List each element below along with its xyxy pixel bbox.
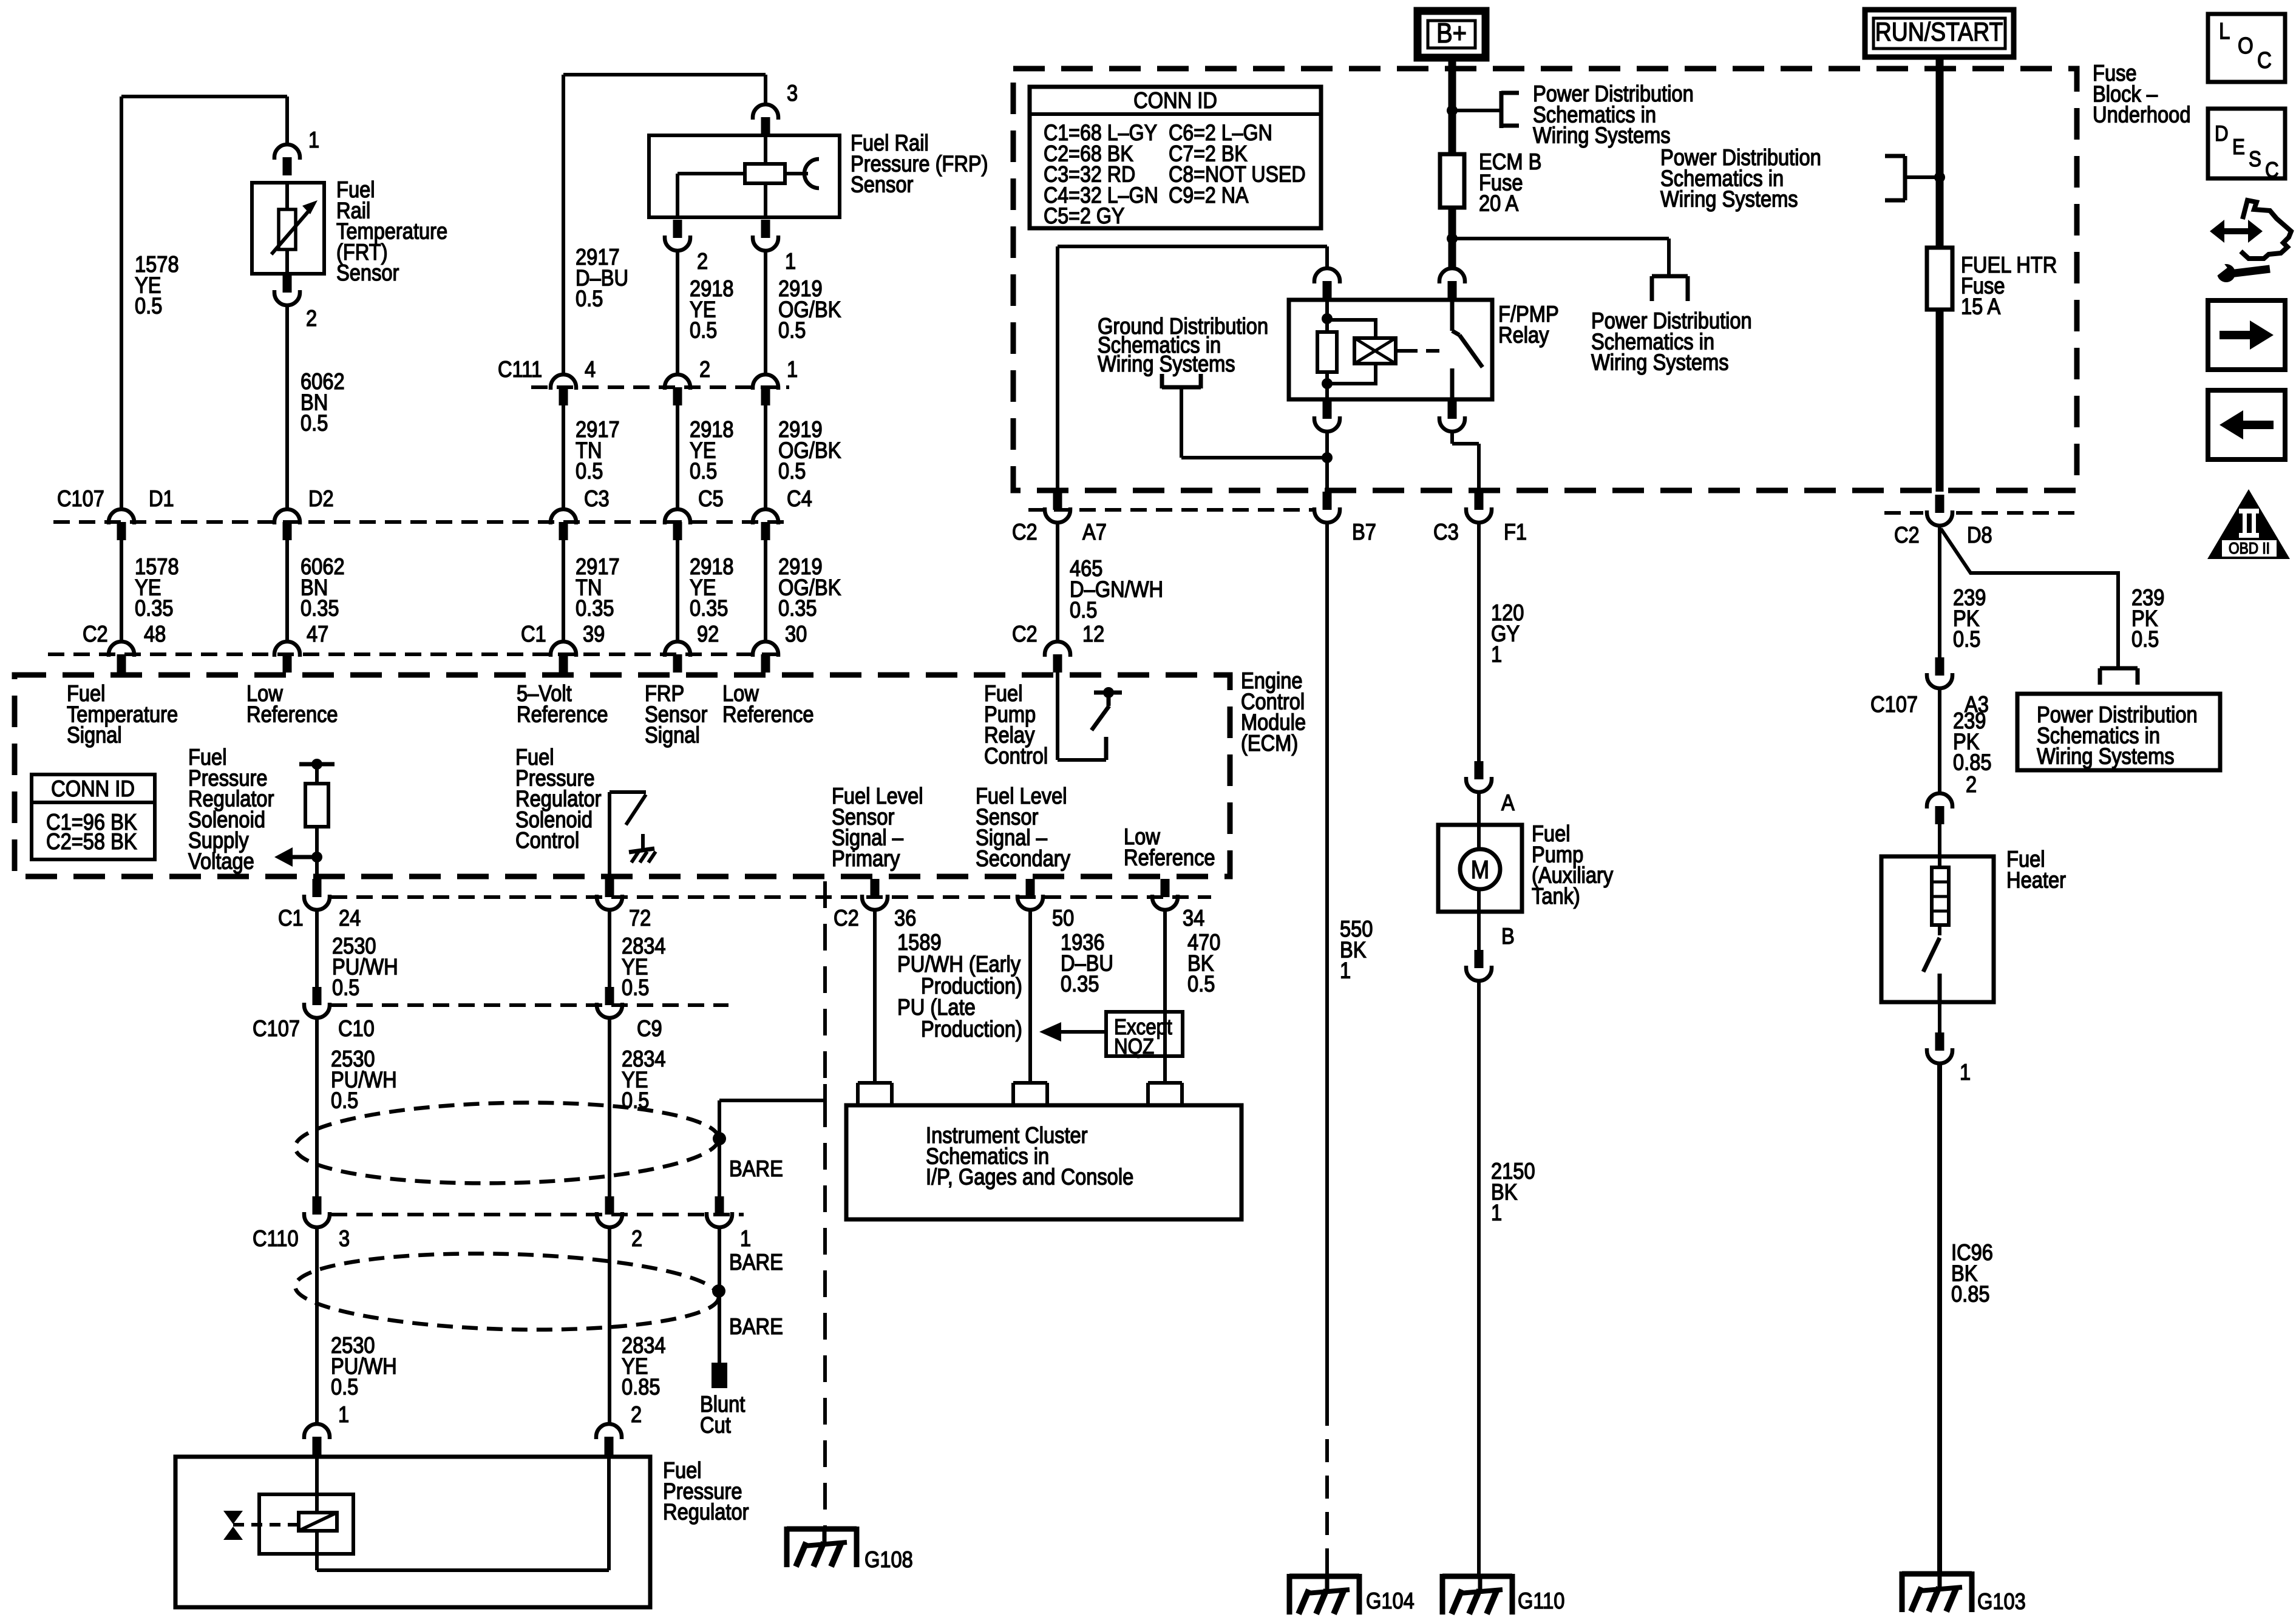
svg-text:Wiring Systems: Wiring Systems bbox=[1533, 123, 1671, 148]
svg-text:2: 2 bbox=[1966, 771, 1977, 797]
svg-text:D: D bbox=[2215, 121, 2229, 146]
svg-text:0.35: 0.35 bbox=[1061, 971, 1099, 997]
svg-text:50: 50 bbox=[1052, 905, 1074, 930]
svg-text:Tank): Tank) bbox=[1532, 883, 1580, 909]
svg-text:C1: C1 bbox=[521, 621, 546, 646]
svg-text:1: 1 bbox=[785, 248, 796, 274]
svg-text:48: 48 bbox=[144, 621, 166, 646]
svg-text:O: O bbox=[2238, 33, 2254, 59]
svg-text:0.35: 0.35 bbox=[135, 595, 174, 621]
svg-text:C107: C107 bbox=[253, 1015, 300, 1041]
svg-text:B: B bbox=[1501, 923, 1515, 949]
svg-text:2: 2 bbox=[697, 248, 708, 274]
svg-text:24: 24 bbox=[339, 905, 361, 930]
svg-text:C10: C10 bbox=[338, 1015, 375, 1041]
svg-text:0.5: 0.5 bbox=[331, 1088, 358, 1113]
svg-text:Reference: Reference bbox=[722, 701, 814, 727]
svg-text:0.5: 0.5 bbox=[576, 286, 603, 311]
svg-text:0.5: 0.5 bbox=[1953, 626, 1980, 652]
svg-text:Regulator: Regulator bbox=[663, 1499, 749, 1525]
svg-text:C: C bbox=[2265, 157, 2279, 182]
svg-text:3: 3 bbox=[339, 1225, 350, 1251]
svg-text:C1: C1 bbox=[278, 905, 304, 930]
svg-text:2: 2 bbox=[631, 1225, 642, 1251]
svg-text:0.5: 0.5 bbox=[778, 317, 806, 343]
svg-text:Voltage: Voltage bbox=[188, 849, 254, 874]
svg-text:B7: B7 bbox=[1352, 519, 1376, 544]
svg-text:Cut: Cut bbox=[700, 1412, 731, 1437]
svg-text:30: 30 bbox=[785, 621, 807, 646]
svg-text:C3: C3 bbox=[1433, 519, 1459, 544]
svg-text:0.5: 0.5 bbox=[778, 458, 806, 484]
svg-text:C5=2 GY: C5=2 GY bbox=[1044, 203, 1124, 228]
svg-text:0.5: 0.5 bbox=[301, 410, 328, 436]
svg-text:Primary: Primary bbox=[832, 846, 900, 871]
svg-text:0.5: 0.5 bbox=[332, 975, 359, 1000]
svg-text:C2: C2 bbox=[834, 905, 859, 930]
svg-text:0.35: 0.35 bbox=[301, 595, 339, 621]
svg-text:A: A bbox=[1501, 790, 1515, 815]
svg-text:G103: G103 bbox=[1977, 1588, 2026, 1614]
svg-text:C2: C2 bbox=[1012, 621, 1038, 646]
svg-text:G104: G104 bbox=[1366, 1588, 1415, 1613]
svg-text:B+: B+ bbox=[1436, 17, 1467, 49]
svg-text:0.5: 0.5 bbox=[690, 317, 717, 343]
svg-text:S: S bbox=[2249, 146, 2261, 171]
svg-text:C9=2 NA: C9=2 NA bbox=[1169, 183, 1249, 208]
svg-text:C2=58 BK: C2=58 BK bbox=[46, 829, 137, 854]
svg-text:D2: D2 bbox=[308, 486, 334, 511]
svg-text:Heater: Heater bbox=[2006, 867, 2066, 892]
svg-text:Wiring Systems: Wiring Systems bbox=[1098, 351, 1235, 376]
svg-text:Reference: Reference bbox=[246, 701, 338, 727]
svg-text:D8: D8 bbox=[1967, 522, 1992, 547]
svg-text:Reference: Reference bbox=[1124, 844, 1215, 870]
svg-text:0.5: 0.5 bbox=[1187, 971, 1215, 997]
svg-text:1: 1 bbox=[308, 127, 319, 152]
svg-text:15 A: 15 A bbox=[1961, 294, 2000, 319]
svg-text:C4: C4 bbox=[787, 486, 812, 511]
svg-text:0.5: 0.5 bbox=[690, 458, 717, 484]
svg-text:0.5: 0.5 bbox=[135, 293, 162, 319]
svg-text:C2: C2 bbox=[1894, 522, 1920, 547]
svg-text:Production): Production) bbox=[921, 1016, 1022, 1042]
svg-text:12: 12 bbox=[1082, 621, 1104, 646]
svg-text:Wiring Systems: Wiring Systems bbox=[2037, 744, 2175, 769]
svg-text:(ECM): (ECM) bbox=[1241, 730, 1298, 756]
svg-text:34: 34 bbox=[1183, 905, 1204, 930]
svg-text:C2: C2 bbox=[83, 621, 108, 646]
svg-text:Signal: Signal bbox=[67, 722, 122, 748]
svg-text:0.85: 0.85 bbox=[622, 1374, 661, 1400]
svg-text:M: M bbox=[1471, 855, 1489, 884]
svg-text:1: 1 bbox=[1491, 1200, 1502, 1225]
svg-text:F1: F1 bbox=[1504, 519, 1527, 544]
svg-text:RUN/START: RUN/START bbox=[1875, 18, 2003, 47]
svg-text:47: 47 bbox=[307, 621, 328, 646]
svg-text:2: 2 bbox=[306, 305, 317, 331]
svg-text:0.5: 0.5 bbox=[2131, 626, 2159, 652]
svg-text:C3: C3 bbox=[584, 486, 610, 511]
svg-text:1: 1 bbox=[740, 1225, 751, 1251]
svg-text:D1: D1 bbox=[149, 486, 174, 511]
svg-text:BARE: BARE bbox=[729, 1249, 783, 1275]
svg-text:Wiring Systems: Wiring Systems bbox=[1591, 350, 1729, 375]
svg-text:NQZ: NQZ bbox=[1114, 1034, 1154, 1059]
svg-text:G110: G110 bbox=[1518, 1588, 1564, 1613]
svg-text:E: E bbox=[2232, 134, 2245, 159]
svg-text:C110: C110 bbox=[253, 1225, 299, 1251]
svg-text:Secondary: Secondary bbox=[976, 846, 1070, 871]
svg-text:C: C bbox=[2257, 48, 2272, 73]
svg-text:C107: C107 bbox=[1870, 691, 1918, 717]
svg-text:Underhood: Underhood bbox=[2093, 102, 2190, 127]
svg-text:Sensor: Sensor bbox=[851, 172, 913, 197]
svg-text:Relay: Relay bbox=[1498, 322, 1549, 347]
svg-text:0.85: 0.85 bbox=[1951, 1281, 1990, 1307]
svg-text:1: 1 bbox=[1960, 1059, 1971, 1085]
svg-text:1: 1 bbox=[787, 356, 798, 382]
svg-text:BARE: BARE bbox=[729, 1313, 783, 1339]
svg-text:C5: C5 bbox=[698, 486, 724, 511]
svg-text:0.35: 0.35 bbox=[576, 595, 614, 621]
svg-text:Sensor: Sensor bbox=[336, 260, 399, 285]
svg-text:92: 92 bbox=[697, 621, 719, 646]
svg-text:0.5: 0.5 bbox=[331, 1374, 358, 1400]
svg-text:C2: C2 bbox=[1012, 519, 1038, 544]
svg-text:G108: G108 bbox=[864, 1547, 913, 1572]
svg-text:72: 72 bbox=[629, 905, 651, 930]
svg-text:Control: Control bbox=[515, 827, 579, 853]
svg-text:I/P, Gages and Console: I/P, Gages and Console bbox=[926, 1164, 1133, 1190]
svg-text:2: 2 bbox=[699, 356, 710, 382]
svg-text:C9: C9 bbox=[637, 1015, 662, 1041]
svg-text:0.35: 0.35 bbox=[690, 595, 729, 621]
svg-text:4: 4 bbox=[585, 356, 596, 382]
svg-text:0.5: 0.5 bbox=[1070, 597, 1097, 623]
svg-text:BARE: BARE bbox=[729, 1156, 783, 1181]
svg-text:1: 1 bbox=[1340, 958, 1351, 983]
svg-text:Control: Control bbox=[984, 743, 1048, 768]
svg-text:CONN ID: CONN ID bbox=[51, 776, 135, 801]
svg-text:1: 1 bbox=[338, 1401, 349, 1427]
svg-text:0.35: 0.35 bbox=[778, 595, 817, 621]
svg-text:36: 36 bbox=[894, 905, 916, 930]
svg-text:Signal: Signal bbox=[645, 722, 700, 748]
svg-text:C107: C107 bbox=[57, 486, 104, 511]
svg-text:3: 3 bbox=[787, 80, 798, 106]
svg-text:OBD II: OBD II bbox=[2229, 539, 2270, 557]
svg-text:L: L bbox=[2219, 19, 2230, 44]
svg-text:C111: C111 bbox=[498, 356, 542, 382]
svg-text:CONN ID: CONN ID bbox=[1133, 87, 1217, 113]
svg-text:20 A: 20 A bbox=[1479, 191, 1518, 216]
svg-text:Reference: Reference bbox=[517, 701, 608, 727]
svg-text:0.5: 0.5 bbox=[576, 458, 603, 484]
svg-text:2: 2 bbox=[631, 1401, 642, 1427]
svg-text:0.5: 0.5 bbox=[622, 975, 649, 1000]
svg-text:Wiring Systems: Wiring Systems bbox=[1660, 186, 1798, 212]
svg-text:A7: A7 bbox=[1082, 519, 1107, 544]
svg-text:1: 1 bbox=[1491, 642, 1502, 667]
svg-text:39: 39 bbox=[583, 621, 605, 646]
